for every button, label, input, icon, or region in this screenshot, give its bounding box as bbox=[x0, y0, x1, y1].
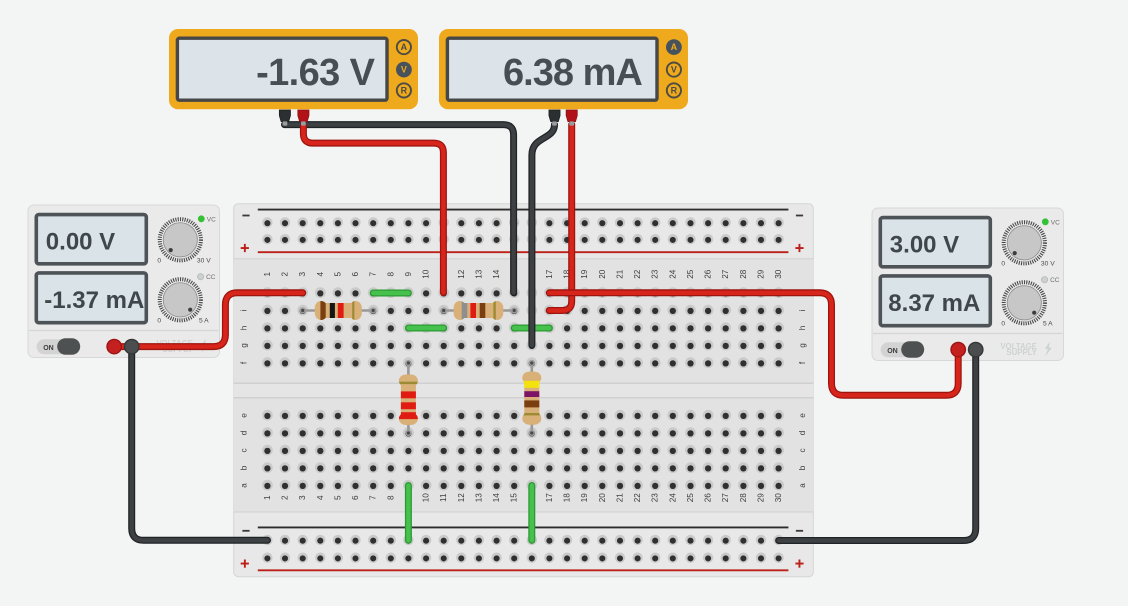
ammeter M2 red probe plug bbox=[566, 110, 577, 122]
left supply + terminal bbox=[107, 339, 121, 353]
CC indicator LED bbox=[1042, 277, 1048, 283]
svg-text:27: 27 bbox=[721, 269, 730, 279]
svg-text:e: e bbox=[240, 413, 249, 418]
svg-text:10: 10 bbox=[422, 493, 431, 503]
wire: ammeter M2 red probe to breadboard i17 bbox=[549, 125, 572, 311]
svg-text:11: 11 bbox=[439, 493, 448, 502]
svg-text:A: A bbox=[671, 42, 678, 52]
multimeter M1 voltmeter -1.63 V body bbox=[169, 29, 418, 109]
svg-text:27: 27 bbox=[721, 493, 730, 503]
svg-text:24: 24 bbox=[668, 493, 677, 503]
jumper wire row h cols 9-11 bbox=[408, 325, 443, 332]
svg-text:28: 28 bbox=[739, 493, 748, 503]
VC indicator LED bbox=[198, 215, 205, 222]
svg-text:22: 22 bbox=[633, 493, 642, 503]
svg-text:4: 4 bbox=[316, 271, 325, 276]
svg-text:30: 30 bbox=[774, 269, 783, 279]
svg-text:24: 24 bbox=[668, 269, 677, 279]
svg-text:21: 21 bbox=[616, 493, 625, 503]
jumper wire row h cols 15-17 bbox=[514, 325, 549, 332]
ON switch bbox=[37, 339, 80, 354]
svg-text:1: 1 bbox=[263, 495, 272, 500]
resistor R3 2.2k&#937; (red red red gold) col 9 rows f-d bbox=[399, 360, 418, 436]
svg-text:30: 30 bbox=[774, 493, 783, 503]
svg-text:ON: ON bbox=[43, 345, 54, 352]
svg-text:2: 2 bbox=[281, 271, 290, 276]
svg-text:b: b bbox=[240, 465, 249, 470]
voltmeter M1 red probe plug bbox=[298, 110, 309, 122]
current knob bbox=[1004, 282, 1045, 323]
svg-text:a: a bbox=[240, 483, 249, 488]
svg-text:i: i bbox=[240, 309, 249, 311]
svg-text:13: 13 bbox=[474, 493, 483, 503]
svg-text:7: 7 bbox=[369, 495, 378, 500]
svg-text:h: h bbox=[240, 325, 249, 330]
right supply - terminal bbox=[969, 342, 983, 356]
wire: voltmeter M1 black probe to breadboard j15 bbox=[285, 125, 514, 293]
svg-text:8.37 mA: 8.37 mA bbox=[888, 290, 980, 317]
svg-text:5 A: 5 A bbox=[1043, 321, 1053, 328]
voltage knob bbox=[160, 219, 201, 260]
svg-text:10: 10 bbox=[422, 269, 431, 279]
jumper wire row j cols 7-9 bbox=[373, 290, 408, 297]
svg-text:14: 14 bbox=[492, 493, 501, 503]
svg-text:9: 9 bbox=[404, 271, 413, 276]
svg-text:a: a bbox=[798, 483, 807, 488]
svg-text:CC: CC bbox=[1050, 277, 1060, 284]
svg-text:30 V: 30 V bbox=[197, 258, 211, 265]
svg-text:3: 3 bbox=[298, 495, 307, 500]
svg-text:8: 8 bbox=[386, 495, 395, 500]
svg-text:V: V bbox=[401, 65, 407, 75]
left supply - terminal bbox=[125, 339, 139, 353]
ammeter M2 black probe plug bbox=[549, 110, 560, 122]
voltmeter M1 black probe plug bbox=[279, 110, 290, 122]
svg-text:R: R bbox=[671, 86, 678, 96]
svg-text:26: 26 bbox=[704, 493, 713, 503]
resistor R2 820&#937; (grey red brown gold) row i cols 11-15 bbox=[441, 301, 518, 320]
svg-text:23: 23 bbox=[651, 269, 660, 279]
svg-text:8: 8 bbox=[386, 271, 395, 276]
svg-text:VC: VC bbox=[1051, 219, 1060, 226]
svg-text:17: 17 bbox=[545, 269, 554, 279]
svg-text:20: 20 bbox=[598, 269, 607, 279]
svg-text:h: h bbox=[798, 325, 807, 330]
right supply + terminal bbox=[951, 342, 965, 356]
svg-text:2: 2 bbox=[281, 495, 290, 500]
svg-text:15: 15 bbox=[510, 493, 519, 503]
svg-text:b: b bbox=[798, 465, 807, 470]
svg-text:12: 12 bbox=[457, 269, 466, 279]
svg-text:0: 0 bbox=[157, 258, 161, 265]
breadboard bbox=[234, 204, 814, 577]
svg-text:e: e bbox=[798, 413, 807, 418]
svg-text:5: 5 bbox=[333, 271, 342, 276]
svg-text:5 A: 5 A bbox=[199, 318, 209, 325]
voltage knob bbox=[1004, 222, 1045, 263]
CC indicator LED bbox=[198, 274, 204, 280]
svg-text:d: d bbox=[240, 430, 249, 435]
resistor R1 1k&#937; (brown black red gold) row i cols 3-7 bbox=[300, 301, 377, 320]
svg-text:c: c bbox=[798, 448, 807, 452]
wire: left supply + terminal to breadboard j3 bbox=[114, 293, 303, 347]
wire: ammeter M2 black probe to breadboard g16 bbox=[532, 125, 555, 346]
svg-text:6: 6 bbox=[351, 495, 360, 500]
svg-text:22: 22 bbox=[633, 269, 642, 279]
svg-text:14: 14 bbox=[492, 269, 501, 279]
svg-text:25: 25 bbox=[686, 493, 695, 503]
svg-text:d: d bbox=[798, 430, 807, 435]
svg-text:A: A bbox=[401, 42, 408, 52]
svg-text:3: 3 bbox=[298, 271, 307, 276]
wire: left supply - terminal to bottom negative rail left bbox=[132, 347, 268, 541]
svg-text:CC: CC bbox=[206, 274, 216, 281]
svg-text:6.38 mA: 6.38 mA bbox=[503, 52, 642, 94]
power supply PS1 (left) 0.00 V / -1.37 mA body bbox=[28, 205, 220, 358]
svg-text:4: 4 bbox=[316, 495, 325, 500]
svg-text:ON: ON bbox=[887, 348, 898, 355]
VC indicator LED bbox=[1042, 218, 1049, 225]
svg-text:0: 0 bbox=[1001, 261, 1005, 268]
wire: right supply - terminal to bottom negative rail right bbox=[779, 350, 976, 541]
svg-text:0: 0 bbox=[1001, 321, 1005, 328]
svg-text:0.00 V: 0.00 V bbox=[46, 229, 115, 256]
svg-text:1: 1 bbox=[263, 271, 272, 276]
svg-text:12: 12 bbox=[457, 493, 466, 503]
svg-text:7: 7 bbox=[369, 271, 378, 276]
svg-text:5: 5 bbox=[333, 495, 342, 500]
wire: voltmeter M1 red probe to breadboard j11 bbox=[303, 126, 443, 293]
svg-text:6: 6 bbox=[351, 271, 360, 276]
svg-text:17: 17 bbox=[545, 493, 554, 503]
svg-text:SUPPLY: SUPPLY bbox=[1006, 348, 1037, 357]
svg-text:0: 0 bbox=[157, 318, 161, 325]
wire: right supply + terminal to breadboard j17 bbox=[549, 293, 958, 396]
svg-text:26: 26 bbox=[704, 269, 713, 279]
svg-text:g: g bbox=[798, 343, 807, 348]
svg-text:i: i bbox=[798, 309, 807, 311]
current knob bbox=[160, 279, 201, 320]
svg-text:20: 20 bbox=[598, 493, 607, 503]
svg-text:VC: VC bbox=[207, 216, 216, 223]
svg-text:-1.63 V: -1.63 V bbox=[256, 52, 376, 94]
svg-text:13: 13 bbox=[474, 269, 483, 279]
svg-text:3.00 V: 3.00 V bbox=[890, 232, 959, 259]
ON switch bbox=[881, 342, 924, 357]
jumper wire col 16 row a to bottom negative rail bbox=[528, 486, 535, 541]
svg-text:-1.37 mA: -1.37 mA bbox=[44, 287, 144, 314]
multimeter M2 ammeter 6.38 mA body bbox=[439, 29, 688, 109]
svg-text:25: 25 bbox=[686, 269, 695, 279]
svg-text:V: V bbox=[671, 65, 677, 75]
resistor R4 470&#937; (yellow violet brown gold) col 16 rows f-d bbox=[522, 360, 541, 436]
svg-text:28: 28 bbox=[739, 269, 748, 279]
svg-text:29: 29 bbox=[757, 269, 766, 279]
power supply PS2 (right) 3.00 V / 8.37 mA body bbox=[872, 208, 1064, 361]
svg-text:21: 21 bbox=[616, 269, 625, 279]
svg-text:19: 19 bbox=[580, 493, 589, 503]
svg-text:29: 29 bbox=[757, 493, 766, 503]
jumper wire col 9 row a to bottom negative rail bbox=[405, 486, 412, 541]
svg-text:30 V: 30 V bbox=[1041, 261, 1055, 268]
svg-text:23: 23 bbox=[651, 493, 660, 503]
svg-text:18: 18 bbox=[563, 493, 572, 503]
svg-text:g: g bbox=[240, 343, 249, 348]
svg-text:19: 19 bbox=[580, 269, 589, 279]
svg-text:c: c bbox=[240, 448, 249, 452]
svg-text:R: R bbox=[401, 86, 408, 96]
